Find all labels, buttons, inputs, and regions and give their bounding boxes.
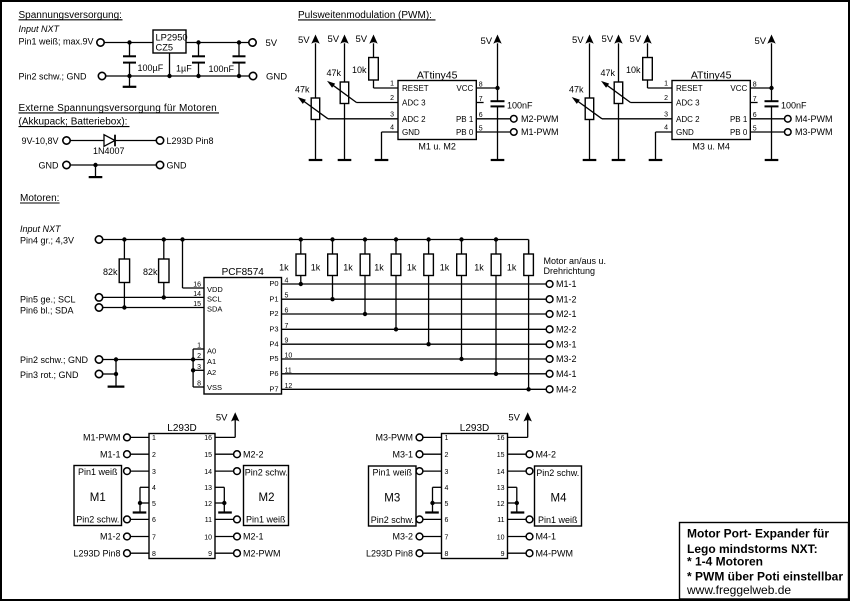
wire gnd A1 [103,359,193,361]
svg-text:5: 5 [753,125,757,132]
junction input cap [127,40,131,44]
svg-text:14: 14 [497,469,505,476]
junction 1uF top [196,40,200,44]
info box Motor Port-Expander [680,523,849,600]
pin 14 L293D b [497,469,505,476]
svg-text:ADC 2: ADC 2 [676,115,700,124]
label M2-2 a [243,449,264,459]
label GND right [167,160,188,170]
svg-text:M1-2: M1-2 [100,532,121,542]
ground enable right b [511,511,525,513]
label 9V-10,8V [22,136,59,146]
label Pin1 weiss max.9V [19,36,94,46]
wire GND pin4 a [382,132,399,160]
label M3-2 b [392,532,413,542]
svg-text:5V: 5V [328,34,340,45]
svg-text:Pin3 rot.; GND: Pin3 rot.; GND [20,370,79,380]
svg-text:4: 4 [445,485,449,492]
svg-text:Pin1 weiß: Pin1 weiß [373,467,413,477]
wire VCC b [750,87,771,89]
svg-text:Pin1 weiß; max.9V: Pin1 weiß; max.9V [19,36,94,46]
wire P1 to M1-2 [282,298,547,300]
svg-text:100nF: 100nF [507,101,533,111]
svg-text:47k: 47k [295,84,310,94]
wire P5 to M3-2 [282,358,547,360]
capacitor 100nF a [491,101,505,160]
resistor R82k-1 [119,240,129,308]
wire ADC2 a [328,118,398,120]
label 5V 10k b [630,34,642,45]
svg-text:M2-2: M2-2 [243,449,264,459]
pin 9 L293D a [208,551,212,558]
label Pin3 rot GND [20,370,79,380]
wire ext gnd [70,164,156,166]
label Pin4 gr 4,3V [20,236,74,246]
label M1-PWM a [83,433,121,443]
pin8 VSS [197,381,222,393]
pin 10 L293D b [497,534,505,541]
pin8 VCC a [456,81,482,93]
label 100nF b [781,101,807,111]
svg-text:Pin2 schw.; GND: Pin2 schw.; GND [20,355,89,365]
svg-text:L293D Pin8: L293D Pin8 [73,548,120,558]
pin 12 P7 [269,383,292,394]
junction A2 [191,368,195,372]
ground symbol motoren [108,386,125,388]
svg-text:100µF: 100µF [138,63,164,73]
junction VCC b [769,86,773,90]
svg-text:ATtiny45: ATtiny45 [417,69,458,81]
pin 5 L293D b [445,501,449,508]
label L293D Pin8 supply [167,136,214,146]
label M1-1 a [100,449,121,459]
svg-text:Motor Port- Expander für: Motor Port- Expander für [687,527,829,541]
terminal M3-1 [546,341,553,348]
svg-text:PB 0: PB 0 [730,128,748,137]
svg-text:16: 16 [204,435,212,442]
svg-text:M2-PWM: M2-PWM [243,548,281,558]
svg-text:* PWM über Poti einstellbar: * PWM über Poti einstellbar [687,569,843,583]
pin 9 P4 [269,338,288,349]
junction 1k3 P2 [363,312,367,316]
svg-text:M3 u. M4: M3 u. M4 [692,141,730,151]
svg-text:4: 4 [152,485,156,492]
label 1k 1 [279,263,289,273]
junction pin12 a [222,501,226,505]
svg-text:5: 5 [152,501,156,508]
pin 11 L293D a [205,517,212,524]
terminal left pin3 a [124,468,149,475]
power 5V arrow L293D a [215,412,239,437]
junction rail x428.6 [426,237,430,241]
svg-text:M3-PWM: M3-PWM [376,433,414,443]
terminal 9V input [63,137,70,144]
junction rail x396 [394,237,398,241]
terminal Pin3 gnd [95,370,102,377]
junction 1k1 P0 [299,282,303,286]
svg-text:M4-1: M4-1 [536,532,557,542]
svg-text:VDD: VDD [207,285,223,294]
svg-text:5V: 5V [266,38,278,49]
pin7 stub a [476,96,483,103]
svg-text:M1-PWM: M1-PWM [521,127,559,137]
svg-text:5V: 5V [572,35,584,46]
svg-text:M1-2: M1-2 [556,294,577,304]
svg-text:ADC 2: ADC 2 [402,115,426,124]
junction 1k6 P5 [459,357,463,361]
pin6 PB1 a [456,112,483,124]
pin 3 L293D a [152,469,156,476]
svg-text:L293D: L293D [460,423,489,434]
svg-text:M3-1: M3-1 [392,449,413,459]
label 5V pot b2 [602,34,614,45]
ground pot a1 [309,159,323,161]
svg-text:M1-PWM: M1-PWM [83,433,121,443]
wire PB1 a [476,118,510,120]
label M1-2 [556,294,577,304]
potentiometer Pb2 47k [601,81,631,160]
svg-text:M3: M3 [384,493,400,505]
svg-text:M4-2: M4-2 [536,449,557,459]
svg-text:P5: P5 [269,354,278,363]
terminal left pin1 a [124,434,149,441]
label ATtiny45 a [417,69,458,81]
capacitor C2 1uF [176,43,205,77]
label 5V 10k a [356,34,368,45]
svg-text:3: 3 [445,469,449,476]
svg-text:ADC 3: ADC 3 [676,99,700,108]
svg-text:(Akkupack; Batteriebox):: (Akkupack; Batteriebox): [19,117,128,128]
svg-text:47k: 47k [569,84,584,94]
svg-text:* 1-4 Motoren: * 1-4 Motoren [687,555,763,569]
svg-text:2: 2 [390,95,394,102]
junction rail x461.5 [459,237,463,241]
svg-text:Input NXT: Input NXT [19,24,61,34]
pin 14 L293D a [204,469,212,476]
junction rail x124.4 [122,237,126,241]
IC L293D b [442,434,508,559]
terminal GND output [249,72,256,79]
svg-text:M1-1: M1-1 [556,279,577,289]
svg-text:GND: GND [266,72,287,83]
power 5V arrow pot a1 [311,35,319,99]
svg-text:100nF: 100nF [781,101,807,111]
label 1k 2 [311,263,321,273]
label M3-1 b [392,449,413,459]
enable bracket pins 4 5 b [433,487,442,512]
enable bracket pins 13 12 a [215,487,224,512]
svg-text:VCC: VCC [730,84,747,93]
enable bracket pins 13 12 b [508,487,517,512]
title Externe Spannungsversorgung fuer Motoren [19,103,220,114]
pin6 PB1 b [730,112,757,124]
svg-text:M4-PWM: M4-PWM [795,114,833,124]
ground symbol power section [123,76,137,87]
svg-text:RESET: RESET [676,84,703,93]
label 1N4007 [93,146,125,156]
wire PB0 a [476,131,510,133]
label Drehrichtung [544,266,596,276]
svg-text:M1 u. M2: M1 u. M2 [418,141,456,151]
motor box M4 [535,466,582,526]
pin7 stub b [750,96,757,103]
terminal left pin6 b [416,516,441,523]
pin5 PB0 b [730,125,757,137]
wire ADC2 b [602,118,672,120]
pin3 ADC2 b [664,111,700,124]
svg-text:100nF: 100nF [209,64,235,74]
label Pin6 bl SDA [20,305,74,315]
pin 1 L293D b [445,435,449,442]
wire diode to terminal [115,140,156,142]
svg-text:5V: 5V [481,36,493,47]
terminal left pin2 a [124,451,149,458]
label 5V [266,38,278,49]
svg-text:7: 7 [152,534,156,541]
pin3 A2 [197,364,216,377]
label M1-2 a [100,532,121,542]
svg-text:5V: 5V [298,35,310,46]
svg-text:VSS: VSS [207,383,222,392]
svg-text:11: 11 [497,517,504,524]
svg-text:Motoren:: Motoren: [20,193,59,204]
junction gnd 100nF [237,74,241,78]
svg-text:VCC: VCC [456,84,473,93]
op IC ATtiny45 a [398,81,476,140]
svg-text:PCF8574: PCF8574 [222,267,265,278]
terminal Pin2 gnd motoren [95,356,102,363]
svg-text:P4: P4 [269,339,278,348]
svg-text:1k: 1k [343,263,353,273]
label 1k 3 [343,263,353,273]
junction rail x182.5 [180,237,184,241]
power 5V arrow L293D b [508,412,532,437]
svg-text:13: 13 [497,485,505,492]
wire VDD drop [183,240,205,289]
terminal left pin8 a [124,550,149,557]
label M pair b [692,141,730,151]
svg-text:1: 1 [390,81,394,88]
ground VCC rail b [765,159,779,161]
wire Pin3 gnd [103,373,116,375]
svg-text:14: 14 [193,291,201,298]
label 5V pot b1 [572,35,584,46]
svg-text:1k: 1k [311,263,321,273]
svg-text:3: 3 [152,469,156,476]
label 1k 4 [374,263,384,273]
terminal right pin10 a [215,533,240,540]
junction 100nF top [237,40,241,44]
resistor R1k-6 [457,240,467,360]
svg-text:M3-2: M3-2 [392,532,413,542]
label L293D b [460,423,489,434]
resistor R1k-1 [296,240,306,285]
svg-text:LP2950: LP2950 [156,33,188,43]
svg-text:Pin1 weiß: Pin1 weiß [538,515,578,525]
label M4-PWM b [536,548,574,558]
pin 6 L293D a [152,517,156,524]
pin 8 L293D a [152,551,156,558]
junction 1k7 P6 [494,372,498,376]
svg-text:1: 1 [197,343,201,350]
terminal left pin3 b [416,468,441,475]
svg-text:9: 9 [208,551,212,558]
label 1k 6 [440,263,450,273]
label M4-PWM [795,114,833,124]
svg-text:5V: 5V [630,34,642,45]
wire gnd down [115,360,117,387]
pin 4 L293D a [152,485,156,492]
svg-text:1k: 1k [279,263,289,273]
junction gnd regulator [167,74,171,78]
pin4 GND b [664,125,694,138]
svg-text:P2: P2 [269,309,278,318]
enable bracket pins 4 5 a [140,487,149,512]
label 10k a [352,65,367,75]
svg-text:1k: 1k [507,263,517,273]
ground pin4 b [649,159,663,161]
svg-text:M4-2: M4-2 [556,385,577,395]
pin 7 L293D b [445,534,449,541]
ground pot a2 [338,159,352,161]
svg-text:10: 10 [204,534,212,541]
pin 7 P3 [269,323,288,334]
terminal left pin1 b [416,434,441,441]
terminal right pin14 a [215,468,240,475]
potentiometer Pa1 47k [298,97,328,160]
resistor R1k-5 [424,240,434,345]
svg-text:47k: 47k [326,68,341,78]
pin5 PB0 a [456,125,483,137]
motor box M2 [244,466,289,526]
svg-text:1N4007: 1N4007 [93,146,125,156]
svg-text:CZ5: CZ5 [156,42,174,52]
label M4-2 [556,385,577,395]
svg-text:M1: M1 [90,492,106,504]
pin 9 L293D b [501,551,505,558]
junction 1k5 P4 [426,342,430,346]
svg-text:M1-1: M1-1 [100,449,121,459]
ground pin4 a [375,159,389,161]
svg-text:10k: 10k [352,65,367,75]
svg-text:M3-2: M3-2 [556,354,577,364]
junction pin5 b [430,501,434,505]
svg-text:Pin1 weiß: Pin1 weiß [246,514,286,524]
junction rail x163.8 [162,237,166,241]
svg-text:9V-10,8V: 9V-10,8V [22,136,59,146]
pin2 A1 [197,353,216,366]
svg-text:1k: 1k [474,263,484,273]
title Spannungsversorgung [19,10,123,21]
wire SDA [103,307,204,309]
svg-text:7: 7 [445,534,449,541]
pin 7 L293D a [152,534,156,541]
svg-text:12: 12 [497,501,505,508]
wire P7 to M4-2 [282,388,547,390]
title Pulsweitenmodulation [298,10,436,21]
svg-text:GND: GND [167,160,188,170]
label Motor an/aus u. [544,256,607,266]
gnd rail wire [106,75,250,77]
svg-text:82k: 82k [143,267,158,277]
pin 16 L293D a [204,435,212,442]
title Motoren [20,193,60,204]
terminal right pin11 a [215,516,240,523]
title Akkupack Batteriebox [19,117,130,128]
address bracket A0 A1 A2 VSS [193,349,204,387]
svg-text:P6: P6 [269,369,278,378]
pin 6 P2 [269,308,288,319]
svg-text:16: 16 [193,282,201,289]
terminal M2-PWM a [511,116,518,123]
svg-text:A2: A2 [207,368,216,377]
label 5V VCC rail b [755,36,767,47]
svg-text:82k: 82k [103,267,118,277]
pin1 RESET b [664,81,703,94]
terminal M1-2 [546,296,553,303]
diode D1 1N4007 [104,135,115,147]
junction 1k4 P3 [394,327,398,331]
svg-text:P0: P0 [269,279,278,288]
svg-text:1k: 1k [440,263,450,273]
svg-text:ADC 3: ADC 3 [402,99,426,108]
svg-text:6: 6 [152,517,156,524]
capacitor 100nF b [765,101,779,160]
ground enable right a [218,511,232,513]
terminal M4-2 [546,386,553,393]
terminal right pin10 b [508,533,533,540]
pin14 SCL [193,291,221,303]
svg-text:1k: 1k [407,263,417,273]
ground pot b2 [612,159,626,161]
svg-text:5: 5 [479,125,483,132]
svg-text:Externe Spannungsversorgung fü: Externe Spannungsversorgung für Motoren [19,103,217,114]
label M2-PWM [521,114,559,124]
svg-text:L293D Pin8: L293D Pin8 [366,548,413,558]
pin 5 P1 [269,293,288,304]
label M4-1 b [536,532,557,542]
terminal M2-1 [546,311,553,318]
label 82k 2 [143,267,158,277]
terminal right pin11 b [508,516,533,523]
pin 15 L293D a [204,452,212,459]
IC L293D a [149,434,215,559]
resistor R1k-8 [524,240,534,390]
svg-text:M2: M2 [259,492,275,504]
label M2-2 [556,325,577,335]
potentiometer Pb1 47k [572,97,602,160]
svg-text:3: 3 [390,111,394,118]
svg-text:4: 4 [664,125,668,132]
pin 15 L293D b [497,452,505,459]
label 47k a2 [326,68,341,78]
svg-text:M4: M4 [551,493,568,505]
svg-text:11: 11 [205,517,212,524]
wire ADC3 b [631,102,673,104]
ground enable left b [425,511,439,513]
pin 11 L293D b [497,517,504,524]
junction ext gnd [93,163,97,167]
svg-text:Motor an/aus u.: Motor an/aus u. [544,256,607,266]
pin2 ADC3 a [390,95,426,108]
power 5V arrow pot b2 [614,35,622,83]
pin3 ADC2 a [390,111,426,124]
pin 3 L293D b [445,469,449,476]
label 100nF a [507,101,533,111]
label 5V pot a1 [298,35,310,46]
svg-text:L293D: L293D [167,423,196,434]
top rail 4.3V wire [103,240,529,255]
